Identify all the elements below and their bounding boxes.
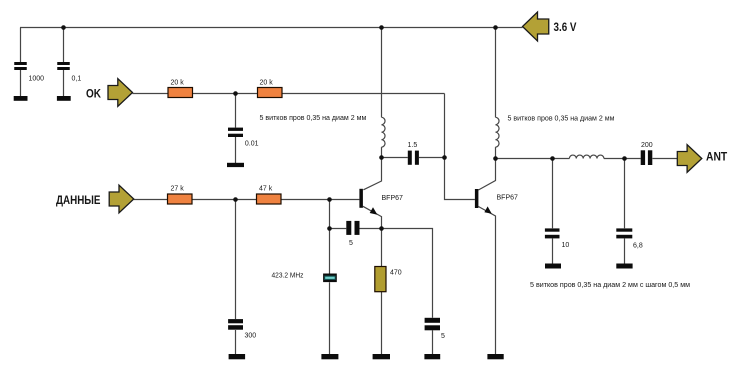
svg-text:47 k: 47 k: [259, 186, 273, 193]
svg-text:200: 200: [641, 142, 653, 149]
svg-text:ANT: ANT: [706, 152, 727, 164]
svg-text:27 k: 27 k: [171, 186, 185, 193]
svg-text:1000: 1000: [29, 76, 45, 83]
svg-text:423.2 MHz: 423.2 MHz: [272, 273, 304, 280]
svg-text:470: 470: [390, 270, 402, 277]
svg-text:20 k: 20 k: [260, 80, 274, 87]
svg-text:3.6 V: 3.6 V: [554, 22, 577, 34]
svg-text:5 витков пров 0,35 на диам 2 м: 5 витков пров 0,35 на диам 2 мм: [260, 115, 367, 122]
svg-text:ДАННЫЕ: ДАННЫЕ: [56, 195, 101, 207]
svg-text:5 витков пров 0,35 на диам 2 м: 5 витков пров 0,35 на диам 2 мм: [508, 116, 615, 123]
svg-text:6,8: 6,8: [633, 243, 643, 250]
svg-text:300: 300: [245, 333, 257, 340]
svg-text:0.01: 0.01: [245, 141, 259, 148]
svg-text:5 витков пров 0,35 на диам 2 м: 5 витков пров 0,35 на диам 2 мм с шагом …: [530, 282, 690, 289]
svg-text:5: 5: [441, 333, 445, 340]
svg-text:10: 10: [562, 242, 570, 249]
svg-text:BFP67: BFP67: [497, 195, 519, 202]
svg-text:20 k: 20 k: [171, 80, 185, 87]
svg-text:OK: OK: [86, 89, 102, 101]
svg-text:1.5: 1.5: [408, 142, 418, 149]
svg-text:5: 5: [349, 240, 353, 247]
svg-text:BFP67: BFP67: [382, 195, 404, 202]
svg-text:0,1: 0,1: [72, 76, 82, 83]
